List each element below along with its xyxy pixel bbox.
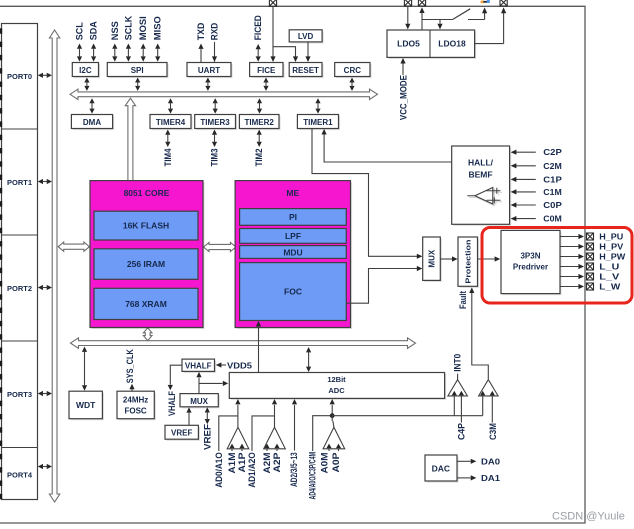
svg-text:RXD: RXD [210, 22, 220, 40]
wire NSS [112, 44, 117, 62]
svg-text:PORT3: PORT3 [7, 390, 32, 399]
oscillator 24MHz FOSC block [117, 391, 156, 420]
wire AD0/A1O to ADC [219, 416, 238, 451]
svg-text:LDO5: LDO5 [397, 39, 420, 49]
label PORT3 [7, 390, 32, 399]
3P3N Predriver block [501, 230, 562, 295]
amplifier A0 [323, 416, 345, 451]
net label SYS_CLK [125, 349, 135, 383]
peripheral CRC [335, 63, 372, 79]
svg-text:AD0/A1O: AD0/A1O [214, 452, 224, 488]
pin label DA0 [481, 456, 500, 466]
svg-text:TIM4: TIM4 [163, 149, 173, 167]
pin label A2M [262, 453, 272, 474]
svg-text:Fault: Fault [458, 291, 468, 309]
svg-text:C2M: C2M [543, 161, 562, 171]
wire VREF to MUX [186, 407, 191, 425]
svg-text:TIM2: TIM2 [254, 149, 264, 167]
wire MOSI [141, 44, 146, 62]
memory 16K FLASH [94, 211, 198, 240]
wire C1M input [511, 189, 536, 194]
pin label A0M [320, 453, 330, 474]
wire AD4 net to ADC [330, 399, 335, 416]
svg-text:CSDN @Yuule: CSDN @Yuule [552, 511, 625, 523]
pin VIN [404, 0, 411, 6]
wire C1P input [511, 177, 536, 182]
svg-text:DAC: DAC [432, 463, 450, 473]
wire VHALF output (down) [168, 365, 182, 390]
svg-text:Predriver: Predriver [513, 263, 548, 272]
net label VDD5 [227, 361, 252, 371]
svg-text:PORT0: PORT0 [7, 72, 32, 81]
svg-text:3P3N: 3P3N [520, 252, 540, 261]
wire CRC to peripheral bus [349, 78, 354, 91]
svg-text:DMA: DMA [83, 118, 101, 127]
submodule PI [240, 209, 347, 226]
pin label NSS [110, 21, 120, 40]
DAC block [425, 455, 459, 483]
svg-text:VREF: VREF [171, 428, 192, 437]
HALL/BEMF block [452, 146, 511, 226]
svg-text:VDD5: VDD5 [227, 361, 252, 371]
peripheral RESET [289, 63, 323, 79]
pin label C2M [543, 161, 562, 171]
svg-text:PORT4: PORT4 [7, 470, 33, 479]
svg-text:CRC: CRC [344, 66, 362, 75]
svg-text:NSS: NSS [110, 21, 120, 40]
wire I2C to peripheral bus [84, 78, 89, 91]
wire LDO5 to VDD5 pin [419, 7, 424, 30]
port pin stubs (cut off at edge) [0, 28, 2, 499]
svg-text:L_U: L_U [599, 263, 619, 272]
wire VCC_MODE to LDO5 [400, 58, 405, 75]
8051 CORE block [90, 181, 205, 329]
svg-text:MISO: MISO [153, 16, 163, 40]
pin label TIM2 [254, 149, 264, 167]
pin label AD0/A1O [214, 452, 224, 488]
wire 8051 core to ME [204, 242, 236, 251]
svg-text:MOSI: MOSI [138, 16, 148, 40]
wire MUX to ADC ref [199, 381, 228, 386]
pin H_PW [587, 253, 594, 260]
svg-text:AD2/3/5~13: AD2/3/5~13 [289, 452, 299, 487]
svg-text:VHALF: VHALF [167, 391, 177, 416]
pin label Fault [458, 291, 468, 309]
pin label VREF [202, 423, 212, 450]
wire LDO5 output branch [422, 19, 453, 21]
amplifier A2 [264, 399, 286, 451]
svg-text:A1P: A1P [237, 453, 247, 473]
pin label A1M [227, 453, 237, 474]
wire VIN to LDO5 [405, 7, 410, 30]
submodule LPF [240, 229, 347, 244]
pin label FICED [253, 15, 263, 40]
svg-text:SCLK: SCLK [123, 15, 133, 40]
wire LVD to RESET [305, 43, 310, 63]
wire system bus to ADC [306, 347, 311, 372]
port divider 3 [2, 340, 38, 342]
pin L_V [587, 273, 594, 280]
wire DA0 [457, 459, 476, 464]
wire H_PW output [560, 254, 584, 259]
pin L_W [587, 283, 594, 290]
label PORT0 [7, 72, 32, 81]
peripheral UART [187, 63, 233, 79]
svg-text:ADC: ADC [328, 386, 345, 395]
wire PORT4 to ports bus [38, 464, 52, 469]
svg-text:LVD: LVD [298, 32, 314, 41]
svg-text:TIMER2: TIMER2 [245, 118, 275, 127]
wire MUX to VHALF [196, 372, 201, 393]
pin label AD1/A2O [247, 452, 257, 488]
wire MUX to Protection [440, 256, 457, 261]
pin label L_W [599, 283, 621, 292]
svg-text:TIM3: TIM3 [210, 149, 220, 167]
label PORT4 [7, 470, 33, 479]
port divider 4 [2, 447, 38, 449]
label ME [286, 188, 299, 198]
svg-text:FICED: FICED [253, 15, 263, 40]
pin H_PU [587, 233, 594, 240]
wire TIM2 [257, 130, 262, 148]
pin label L_U [599, 263, 619, 272]
wire HALL-BEMF to TIMER1 [322, 129, 452, 162]
svg-text:L_W: L_W [599, 283, 621, 292]
pin label MISO [153, 16, 163, 40]
peripheral I2C [72, 63, 100, 79]
svg-text:ME: ME [286, 188, 299, 198]
svg-text:AD1/A2O: AD1/A2O [247, 452, 257, 488]
MUX block (PWM mux) [423, 237, 442, 282]
wire peripheral bus to TIMER1 [315, 98, 320, 113]
peripheral SPI [107, 63, 168, 79]
pin L_U [587, 263, 594, 270]
svg-text:AD4/A0O/C3P/C4M: AD4/A0O/C3P/C4M [308, 452, 318, 500]
wire FICE to peripheral bus [263, 78, 268, 91]
GPIO port block PORT0-PORT4 [2, 24, 38, 500]
pin label VHALF [167, 391, 177, 416]
peripheral TIMER2 [239, 115, 280, 131]
analog MUX block [180, 394, 220, 409]
wire Fault (comparator to Protection) [469, 287, 488, 379]
pin label MOSI [138, 16, 148, 40]
Protection block [458, 237, 479, 288]
wire MISO [155, 44, 160, 62]
svg-text:LDO18: LDO18 [438, 39, 466, 49]
wire peripheral bus to TIMER4 [168, 98, 173, 113]
svg-text:C4P: C4P [456, 423, 466, 440]
pin label RXD [210, 22, 220, 40]
red highlight box (predriver section) [482, 228, 632, 304]
WDT block [69, 391, 104, 420]
svg-text:DA1: DA1 [481, 473, 500, 483]
wire peripheral bus to DMA [89, 98, 94, 113]
wire FICED [256, 44, 261, 62]
port divider 2 [2, 234, 38, 236]
pin label INT0 [452, 354, 462, 372]
svg-text:TIMER1: TIMER1 [303, 118, 333, 127]
node AD4 junction [330, 413, 335, 418]
svg-text:DA0: DA0 [481, 456, 500, 466]
svg-text:I2C: I2C [79, 66, 92, 75]
svg-text:Protection: Protection [466, 240, 473, 284]
amplifier A1 [227, 399, 249, 451]
label PORT2 [7, 284, 32, 293]
wire C2P input [511, 150, 536, 155]
svg-text:H_PV: H_PV [599, 243, 624, 252]
pin label AD2/3/5~13 [289, 452, 299, 487]
pin label C3M [488, 423, 498, 440]
peripheral TIMER1 [297, 115, 340, 131]
svg-text:768 XRAM: 768 XRAM [125, 299, 167, 309]
wire SDA [91, 44, 96, 62]
svg-text:A2M: A2M [262, 453, 272, 474]
pin H_PV [587, 243, 594, 250]
wire Protection to predriver [478, 256, 501, 261]
submodule MDU [240, 246, 347, 259]
svg-text:A0M: A0M [320, 453, 330, 474]
peripheral TIMER3 [195, 115, 237, 131]
svg-text:C0M: C0M [543, 214, 562, 224]
pin label H_PU [599, 233, 623, 242]
pin label C4P [456, 423, 466, 440]
svg-text:PI: PI [289, 212, 297, 222]
submodule FOC [240, 263, 347, 321]
wire AD1/A2O to ADC [252, 416, 275, 451]
svg-text:16K FLASH: 16K FLASH [123, 221, 169, 231]
svg-text:C3M: C3M [488, 423, 498, 440]
system bus (lower horizontal) [71, 338, 416, 348]
wire UART to peripheral bus [205, 78, 210, 91]
svg-text:SDA: SDA [89, 21, 99, 40]
svg-text:HALL/: HALL/ [468, 158, 494, 168]
pin label VCC_MODE [398, 75, 408, 120]
wire AD4 net to comparators [332, 415, 483, 417]
svg-text:SPI: SPI [131, 66, 144, 75]
pin label C1P [543, 174, 562, 184]
ME (motor engine) block [235, 181, 352, 329]
wire C2M input [511, 163, 536, 168]
wire PORT0 to ports bus [38, 73, 52, 78]
svg-text:L_V: L_V [599, 273, 620, 282]
pin label TXD [196, 22, 206, 40]
memory 768 XRAM [94, 288, 198, 319]
wire L_U output [560, 264, 584, 269]
core bus (vertical, upper bus to 8051 core) [125, 98, 135, 180]
wire PORT1 to ports bus [38, 179, 52, 184]
pin label L_V [599, 273, 620, 282]
wire pin to FICE [270, 7, 275, 63]
VHALF block [182, 359, 216, 373]
svg-text:INT0: INT0 [452, 354, 462, 372]
svg-text:WDT: WDT [76, 400, 96, 410]
wire PORT3 to ports bus [38, 391, 52, 396]
wire TIM3 [212, 130, 217, 148]
wire L_W output [560, 284, 584, 289]
wire system bus to WDT [82, 347, 87, 391]
svg-text:C0P: C0P [543, 200, 562, 210]
pin label C2P [543, 147, 562, 157]
pin label SCL [75, 22, 85, 41]
svg-text:H_PW: H_PW [599, 253, 625, 262]
VREF block [165, 425, 200, 441]
wire VREF pin [205, 407, 210, 424]
wire L_V output [560, 274, 584, 279]
pin label DA1 [481, 473, 500, 483]
label PORT1 [7, 178, 32, 187]
svg-text:FOSC: FOSC [124, 406, 146, 415]
pin VDD5 out [418, 0, 425, 6]
pin label SDA [89, 21, 99, 40]
svg-text:8051 CORE: 8051 CORE [124, 188, 170, 198]
svg-text:SYS_CLK: SYS_CLK [125, 349, 135, 383]
pin label TIM4 [163, 149, 173, 167]
svg-text:BEMF: BEMF [468, 170, 492, 180]
svg-text:C2P: C2P [543, 147, 562, 157]
wire TXD (output) [198, 44, 203, 63]
svg-text:SCL: SCL [75, 22, 85, 41]
wire SCLK [126, 44, 131, 62]
pin label C0M [543, 214, 562, 224]
wire LDO18 to VDD18 pin [475, 7, 507, 43]
wire SCL [77, 44, 82, 62]
wire 8051 core to system bus [143, 328, 152, 341]
svg-text:MUX: MUX [190, 397, 208, 406]
wire AD4/A0O/C3P/C4M [313, 416, 333, 451]
svg-text:C1P: C1P [543, 174, 562, 184]
svg-text:H_PU: H_PU [599, 233, 623, 242]
pin label TIM3 [210, 149, 220, 167]
svg-text:A0P: A0P [331, 453, 341, 473]
pin label C0P [543, 200, 562, 210]
wire pin branch to RESET [273, 47, 298, 62]
label 8051 CORE [124, 188, 170, 198]
wire DA1 [457, 475, 476, 480]
wire TIM4 [165, 130, 170, 148]
svg-text:256 IRAM: 256 IRAM [127, 259, 165, 269]
pin label C1M [543, 187, 562, 197]
wire C0P input [511, 202, 536, 207]
pin label H_PW [599, 253, 625, 262]
12Bit ADC block [229, 373, 446, 401]
wire H_PU output [560, 234, 584, 239]
wire SPI to peripheral bus [135, 78, 140, 91]
pin VDD18 out [500, 0, 507, 6]
svg-text:FICE: FICE [257, 66, 276, 75]
svg-text:24MHz: 24MHz [123, 395, 148, 404]
svg-text:LPF: LPF [285, 231, 301, 241]
pin label A1P [237, 453, 247, 473]
svg-text:VCC_MODE: VCC_MODE [398, 75, 408, 120]
comparator symbol inside HALL/BEMF [467, 188, 502, 206]
pin label AD4/A0O/C3P/C4M [308, 452, 318, 500]
svg-text:A1M: A1M [227, 453, 237, 474]
svg-text:PORT1: PORT1 [7, 178, 32, 187]
FICE program pin [269, 0, 276, 6]
svg-text:TIMER4: TIMER4 [156, 118, 186, 127]
peripheral FICE [250, 63, 285, 79]
svg-text:A2P: A2P [272, 453, 282, 473]
wire PORT2 to ports bus [38, 285, 52, 290]
pin label A0P [331, 453, 341, 473]
svg-text:VHALF: VHALF [185, 362, 212, 371]
power switch (open) [453, 9, 471, 20]
wire peripheral bus to TIMER2 [257, 98, 262, 113]
wire FOC to MUX [346, 266, 422, 303]
wire switch to VDD label [468, 7, 487, 19]
svg-text:12Bit: 12Bit [327, 375, 346, 384]
wire branch to LDO18 [437, 20, 442, 30]
svg-text:UART: UART [198, 66, 220, 75]
svg-text:VREF: VREF [202, 423, 212, 450]
ports bus (vertical hollow bus) [49, 30, 59, 502]
wire VDD5 to VHALF [216, 362, 226, 367]
svg-text:RESET: RESET [292, 66, 319, 75]
wire H_PV output [560, 244, 584, 249]
peripheral TIMER4 [150, 115, 193, 131]
svg-text:FOC: FOC [284, 287, 302, 297]
peripheral DMA [71, 115, 114, 131]
comparator fault (C3) [479, 380, 499, 423]
svg-text:TXD: TXD [196, 22, 206, 40]
pin label SCLK [123, 15, 133, 40]
svg-text:TIMER3: TIMER3 [200, 118, 230, 127]
watermark CSDN @Yuule [552, 511, 625, 523]
wire FOSC SYS_CLK [129, 384, 134, 391]
pin label H_PV [599, 243, 624, 252]
svg-text:C1M: C1M [543, 187, 562, 197]
wire peripheral bus to TIMER3 [213, 98, 218, 113]
comparator INT0 [448, 374, 468, 423]
wire C0M input [511, 216, 536, 221]
svg-text:MDU: MDU [283, 247, 302, 257]
regulator LDO5/LDO18 block [387, 30, 476, 59]
svg-text:MUX: MUX [427, 249, 436, 267]
wire RXD (input) [212, 42, 217, 62]
wire AD2/3/5~13 to ADC [292, 399, 297, 451]
memory 256 IRAM [94, 249, 198, 279]
port divider 1 [2, 128, 38, 130]
wire ADC to FOC [256, 321, 261, 372]
svg-text:PORT2: PORT2 [7, 284, 32, 293]
LVD block [289, 30, 323, 44]
peripheral bus (upper horizontal) [70, 89, 378, 99]
cut-off highlighted label at top edge [481, 0, 490, 3]
wire ports bus to 8051 core [58, 242, 89, 251]
pin label A2P [272, 453, 282, 473]
wire TIMER1 to MUX [312, 129, 422, 259]
